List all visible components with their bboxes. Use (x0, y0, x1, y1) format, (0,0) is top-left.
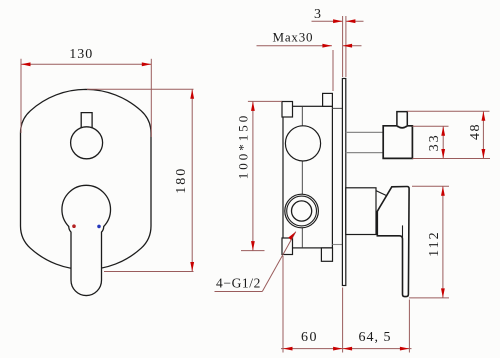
diverter knob (383, 126, 412, 159)
body tab top-right (323, 93, 333, 106)
body tab top-left (282, 102, 293, 118)
dimension Max30 (257, 46, 362, 91)
wall plate (342, 79, 345, 286)
G1/2 port middle ring (287, 196, 317, 226)
G1/2 port inner circle (292, 201, 312, 221)
dimension 48 (407, 111, 489, 158)
svg-text:33: 33 (427, 133, 442, 151)
handle paddle (377, 187, 409, 297)
handle base (346, 188, 376, 235)
G1/2 port outer ring (285, 194, 319, 228)
body centerline (301, 106, 303, 248)
dimension 3 (312, 16, 364, 77)
hot red dot (72, 224, 76, 228)
dimension 60 and 64,5 (281, 256, 412, 353)
handle blade front edge (402, 225, 404, 239)
body tab bottom-right (321, 248, 332, 261)
sleeve bottom line (332, 244, 342, 246)
cold blue dot (97, 225, 101, 229)
svg-text:64, 5: 64, 5 (359, 330, 392, 345)
sleeve top line (332, 107, 342, 109)
diverter stem bottom line (346, 152, 383, 154)
svg-text:60: 60 (301, 330, 318, 345)
svg-text:Max30: Max30 (272, 30, 313, 45)
svg-text:180: 180 (174, 167, 189, 194)
body top port circle (285, 126, 320, 161)
dimension 130 (21, 59, 151, 137)
side view valve body (283, 106, 332, 248)
dimension 100*150 (241, 101, 282, 250)
body tab bottom-left (282, 238, 293, 255)
svg-text:130: 130 (69, 47, 93, 62)
svg-text:3: 3 (314, 7, 321, 22)
dimension 112 (409, 186, 449, 298)
dimension 180 (87, 89, 194, 271)
diverter stem top line (346, 131, 383, 133)
svg-text:48: 48 (468, 123, 483, 140)
front view faceplate (21, 89, 152, 269)
label 4-G1/2 with leader (215, 232, 296, 292)
dimension 33 (412, 126, 490, 158)
front knob cap (81, 113, 92, 128)
handle neck edge line (376, 191, 386, 196)
front lever handle (62, 185, 111, 295)
svg-text:112: 112 (427, 230, 442, 256)
svg-text:100*150: 100*150 (236, 113, 251, 180)
front knob circle (71, 127, 103, 159)
diverter knob cap (397, 112, 407, 126)
svg-text:4−G1/2: 4−G1/2 (216, 275, 261, 290)
